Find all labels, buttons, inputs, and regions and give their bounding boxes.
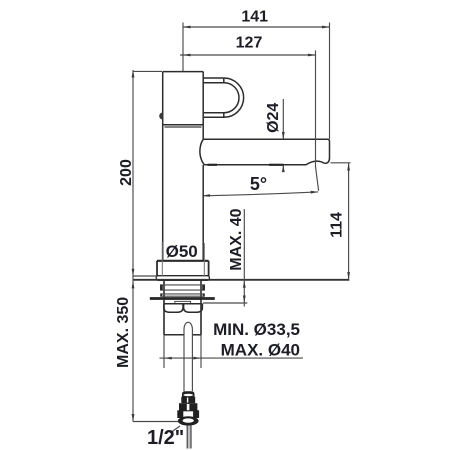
svg-text:MAX. 350: MAX. 350 (115, 297, 132, 368)
dim 200 arrows (132, 70, 135, 276)
svg-text:MAX. 40: MAX. 40 (228, 208, 245, 270)
dim half inch leader (170, 426, 180, 433)
dim 114 extension top (331, 162, 351, 164)
base cylinder (157, 261, 209, 276)
svg-text:114: 114 (329, 212, 346, 238)
svg-text:Ø50: Ø50 (166, 242, 198, 261)
spout (200, 139, 330, 165)
body side pin (159, 113, 163, 120)
dim hole line (160, 357, 303, 360)
hose cap (182, 391, 195, 397)
hex upper (179, 403, 197, 411)
supply tube (184, 322, 192, 391)
dim 114 line (347, 163, 350, 280)
dim 127 line (180, 54, 316, 57)
hose collar (181, 397, 195, 403)
dim MAX40 extension (203, 302, 247, 304)
washer 1 (160, 285, 205, 291)
hex nut (178, 411, 199, 418)
dim 5deg slant (316, 167, 319, 191)
mounting nut (164, 304, 203, 312)
handle loop (203, 78, 243, 117)
svg-text:MIN. Ø33,5: MIN. Ø33,5 (213, 320, 300, 339)
counter line (133, 279, 349, 281)
dim 141 extension left (182, 23, 184, 72)
svg-text:Ø24: Ø24 (265, 103, 282, 133)
spout under dash left (208, 164, 218, 166)
body column (163, 72, 204, 261)
spout under dash right (269, 164, 284, 166)
shank sides (164, 280, 201, 368)
dim 200/350 line (132, 70, 134, 422)
svg-text:1/2": 1/2" (147, 427, 184, 449)
dim 350 extension bottom (133, 421, 179, 423)
dim O24 line (282, 99, 285, 172)
svg-text:200: 200 (118, 159, 135, 186)
dim 127 extension right (315, 51, 317, 168)
svg-text:127: 127 (236, 35, 263, 52)
dim O50 ticks (162, 242, 204, 276)
dim 141 extension right (329, 23, 331, 140)
dim 200 extension top (133, 70, 162, 72)
shank bottom edge (164, 334, 201, 336)
base flange (156, 276, 209, 281)
dim 200 extension bottom (133, 275, 157, 277)
svg-text:141: 141 (241, 9, 268, 26)
dim MAX40 line (243, 209, 246, 307)
body seam (163, 125, 204, 127)
svg-text:MAX. Ø40: MAX. Ø40 (221, 341, 300, 360)
tab (175, 301, 191, 303)
dim 350 arrows (132, 281, 135, 422)
dim 141 line (183, 26, 330, 29)
svg-text:5°: 5° (250, 174, 267, 194)
dim 5deg arc (202, 191, 318, 197)
nut torus (178, 416, 199, 425)
clamp plate (150, 297, 215, 300)
washer 2 (160, 294, 205, 297)
bottom pipe (187, 426, 191, 449)
